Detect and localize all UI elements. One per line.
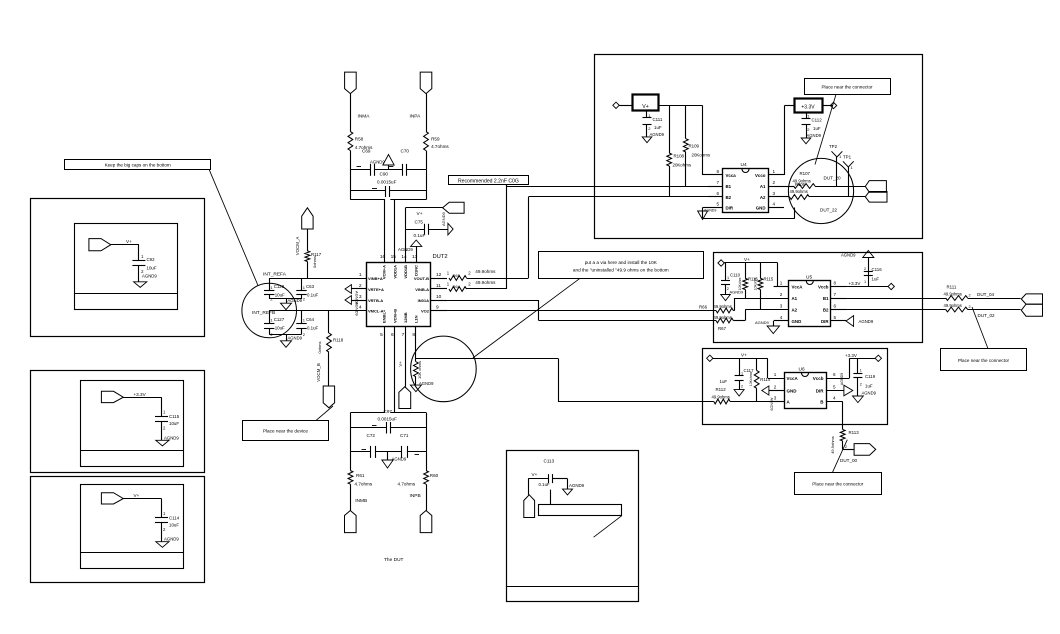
svg-text:AGND9: AGND9 [840, 373, 844, 385]
svg-text:V+: V+ [744, 257, 750, 262]
svg-text:AGND9: AGND9 [862, 391, 877, 396]
svg-text:R66: R66 [699, 304, 708, 309]
svg-text:+3.3V: +3.3V [801, 104, 815, 110]
svg-text:5: 5 [834, 315, 837, 320]
svg-text:R107: R107 [800, 171, 811, 176]
svg-text:VCM+A: VCM+A [382, 265, 387, 279]
svg-text:A2: A2 [792, 308, 798, 313]
svg-text:1: 1 [780, 281, 783, 286]
svg-text:20Kohms: 20Kohms [673, 163, 692, 168]
svg-text:1: 1 [773, 169, 776, 174]
svg-text:R61: R61 [356, 473, 365, 478]
svg-text:R111: R111 [947, 285, 957, 290]
svg-text:49.9ohms: 49.9ohms [944, 292, 962, 297]
svg-text:V+: V+ [398, 361, 403, 367]
svg-text:R113: R113 [849, 430, 860, 435]
svg-text:C63: C63 [306, 284, 315, 289]
svg-text:AGND9: AGND9 [355, 302, 360, 317]
svg-text:49.9ohms: 49.9ohms [790, 189, 808, 194]
svg-text:AGND9: AGND9 [841, 253, 856, 258]
svg-text:4.7ohms: 4.7ohms [355, 481, 373, 486]
svg-text:Place near the connector: Place near the connector [958, 358, 1010, 363]
svg-text:R118: R118 [333, 338, 344, 343]
svg-text:2: 2 [860, 383, 862, 387]
svg-text:VOCM_B: VOCM_B [316, 363, 321, 382]
svg-text:V+: V+ [741, 353, 747, 358]
svg-text:1: 1 [864, 280, 866, 284]
svg-text:DIR: DIR [726, 206, 734, 211]
svg-text:The DUT: The DUT [384, 557, 404, 563]
svg-text:C114: C114 [169, 515, 180, 520]
svg-text:INPB: INPB [410, 493, 421, 499]
svg-text:B2: B2 [823, 308, 829, 313]
svg-text:R58: R58 [355, 137, 364, 142]
svg-text:VRTB-A: VRTB-A [368, 298, 383, 303]
svg-text:IN01A: IN01A [418, 298, 429, 303]
svg-text:DUT_04: DUT_04 [977, 292, 995, 297]
svg-text:R114: R114 [760, 377, 771, 382]
svg-text:2: 2 [845, 445, 847, 449]
svg-text:49.9ohms: 49.9ohms [944, 303, 962, 308]
svg-text:AGND9: AGND9 [288, 336, 303, 341]
svg-text:5: 5 [833, 385, 836, 390]
svg-text:Vccb: Vccb [818, 285, 829, 290]
svg-text:AGND9: AGND9 [650, 132, 665, 137]
svg-text:7: 7 [834, 292, 837, 297]
svg-text:5: 5 [716, 202, 719, 207]
svg-text:+3.3V: +3.3V [134, 392, 147, 397]
svg-text:7: 7 [716, 180, 719, 185]
svg-text:AGND9: AGND9 [142, 273, 157, 278]
svg-text:2: 2 [969, 293, 971, 297]
svg-text:VCM+B: VCM+B [392, 309, 397, 323]
svg-text:VDD1A: VDD1A [392, 265, 397, 279]
svg-text:VOCM_A: VOCM_A [295, 237, 300, 256]
svg-text:VINB-A: VINB-A [415, 287, 429, 292]
svg-text:7: 7 [402, 332, 405, 338]
svg-text:10uF: 10uF [275, 293, 285, 298]
svg-text:AGND9: AGND9 [398, 247, 413, 252]
svg-text:5: 5 [380, 332, 383, 338]
svg-text:Keep the big caps on the botto: Keep the big caps on the bottom [105, 163, 171, 168]
svg-text:C69: C69 [362, 149, 371, 154]
svg-text:Place near the connector: Place near the connector [821, 84, 873, 89]
svg-text:49.9ohms: 49.9ohms [712, 394, 730, 399]
svg-text:INMB: INMB [355, 498, 367, 504]
svg-text:INMA: INMA [358, 114, 371, 120]
svg-text:C71: C71 [400, 433, 409, 438]
svg-text:1uF: 1uF [865, 383, 873, 388]
svg-text:2: 2 [773, 180, 776, 185]
svg-text:0.1uF: 0.1uF [307, 293, 319, 298]
svg-text:V+: V+ [642, 104, 649, 110]
svg-text:AGND9: AGND9 [392, 457, 407, 462]
svg-text:9: 9 [436, 304, 439, 310]
svg-text:B1: B1 [823, 296, 829, 301]
svg-text:8: 8 [412, 332, 415, 338]
svg-text:C70: C70 [401, 149, 410, 154]
svg-text:U4: U4 [741, 162, 747, 168]
svg-text:1: 1 [359, 272, 362, 278]
svg-text:10: 10 [436, 294, 442, 300]
svg-text:A2: A2 [760, 195, 766, 200]
svg-text:12MB: 12MB [403, 312, 408, 323]
svg-text:R108: R108 [674, 154, 685, 159]
svg-text:AGND9: AGND9 [859, 319, 874, 324]
svg-text:R112: R112 [716, 387, 727, 392]
svg-text:1: 1 [774, 372, 777, 377]
svg-text:GND: GND [792, 319, 802, 324]
svg-text:10Kohms: 10Kohms [749, 372, 753, 387]
svg-text:1uF: 1uF [654, 125, 662, 130]
svg-text:L1N: L1N [414, 315, 419, 323]
svg-text:Vccb: Vccb [813, 376, 824, 381]
svg-text:V+: V+ [134, 493, 140, 498]
svg-text:4: 4 [833, 396, 836, 401]
svg-text:AGND9: AGND9 [288, 298, 303, 303]
svg-text:0.0015uF: 0.0015uF [377, 179, 397, 184]
svg-text:1uF: 1uF [720, 379, 728, 384]
svg-text:0.1uF: 0.1uF [414, 233, 426, 238]
svg-text:VRTE+A: VRTE+A [368, 287, 384, 292]
svg-text:R67: R67 [718, 326, 727, 331]
svg-text:4.7ohms: 4.7ohms [431, 144, 449, 149]
svg-text:0.1uF: 0.1uF [539, 482, 551, 487]
svg-text:4: 4 [780, 315, 783, 320]
svg-text:V+: V+ [417, 211, 423, 217]
svg-text:0ohms: 0ohms [312, 256, 317, 268]
svg-text:AGND9: AGND9 [164, 537, 179, 542]
svg-text:DUT_20: DUT_20 [824, 176, 842, 181]
svg-text:6: 6 [833, 372, 836, 377]
svg-text:13: 13 [412, 254, 418, 260]
svg-text:AGND9: AGND9 [770, 398, 774, 411]
svg-text:Vcca: Vcca [726, 173, 737, 178]
svg-text:2: 2 [780, 292, 783, 297]
svg-text:A1: A1 [760, 184, 766, 189]
svg-text:TP1: TP1 [843, 155, 852, 160]
svg-text:Recommended 2.2nF C0G: Recommended 2.2nF C0G [458, 178, 519, 184]
svg-text:4: 4 [773, 202, 776, 207]
svg-text:ENBL+: ENBL+ [382, 309, 387, 323]
svg-text:U6: U6 [799, 367, 805, 373]
svg-text:R65: R65 [453, 273, 461, 278]
svg-text:6: 6 [716, 191, 719, 196]
svg-text:1: 1 [727, 276, 729, 280]
svg-text:15: 15 [391, 254, 397, 260]
svg-text:0.1uF: 0.1uF [307, 326, 319, 331]
svg-text:10uF: 10uF [147, 265, 157, 270]
svg-text:10Kohm: 10Kohm [753, 278, 757, 291]
svg-text:6: 6 [391, 332, 394, 338]
svg-text:INPA: INPA [410, 114, 422, 120]
svg-text:INT_REFA: INT_REFA [263, 272, 287, 278]
svg-text:A1: A1 [792, 296, 798, 301]
svg-text:8: 8 [834, 281, 837, 286]
svg-text:C112: C112 [812, 118, 823, 123]
svg-text:and the "uninstalled "49.9 ohm: and the "uninstalled "49.9 ohms on the b… [573, 267, 669, 272]
svg-text:C90: C90 [380, 172, 389, 177]
svg-text:R59: R59 [431, 136, 440, 141]
svg-text:DIR: DIR [821, 319, 829, 324]
svg-text:VccA: VccA [792, 285, 804, 290]
svg-text:Place near the device: Place near the device [263, 429, 308, 434]
svg-text:Vcco: Vcco [755, 173, 766, 178]
svg-text:TP2: TP2 [829, 144, 838, 149]
svg-text:AGND9: AGND9 [755, 320, 770, 325]
svg-text:1: 1 [860, 368, 862, 372]
svg-text:R115: R115 [764, 276, 774, 281]
svg-text:10Kohm: 10Kohm [738, 278, 742, 291]
svg-text:GND: GND [756, 206, 766, 211]
svg-text:10uF: 10uF [169, 522, 179, 527]
svg-text:C92: C92 [147, 257, 156, 262]
svg-text:DUT_00: DUT_00 [840, 458, 858, 463]
svg-text:AGND9: AGND9 [164, 435, 179, 440]
svg-text:VccA: VccA [787, 376, 799, 381]
svg-text:1uF: 1uF [872, 276, 880, 281]
svg-text:V+: V+ [126, 239, 132, 244]
svg-text:AGND9: AGND9 [704, 209, 716, 213]
svg-text:B1: B1 [726, 184, 732, 189]
svg-text:6: 6 [834, 304, 837, 309]
svg-text:1uF: 1uF [813, 126, 821, 131]
svg-text:3: 3 [780, 304, 783, 309]
svg-text:C72: C72 [367, 433, 376, 438]
svg-text:AGND9: AGND9 [569, 483, 585, 488]
svg-text:49.9ohms: 49.9ohms [830, 436, 835, 454]
svg-text:VO2: VO2 [421, 308, 430, 313]
svg-text:2: 2 [774, 385, 777, 390]
svg-text:C115: C115 [169, 414, 180, 419]
svg-text:16: 16 [380, 254, 386, 260]
svg-text:GND: GND [787, 389, 798, 394]
svg-text:C113: C113 [544, 459, 555, 464]
svg-text:C75: C75 [415, 219, 424, 224]
svg-text:VDD1B: VDD1B [403, 265, 408, 279]
svg-text:V+: V+ [532, 472, 538, 477]
svg-text:AGND9: AGND9 [807, 133, 822, 138]
svg-text:C127: C127 [274, 317, 285, 322]
svg-text:2: 2 [741, 385, 743, 389]
svg-text:C110: C110 [730, 272, 741, 277]
svg-text:AGND9: AGND9 [370, 160, 385, 165]
svg-text:2: 2 [864, 267, 866, 271]
svg-text:14: 14 [401, 254, 407, 260]
svg-text:+3.3V: +3.3V [845, 353, 857, 358]
svg-text:R106: R106 [795, 182, 806, 187]
svg-text:11: 11 [436, 283, 441, 289]
svg-text:49.9ohms: 49.9ohms [714, 315, 732, 320]
svg-text:8: 8 [716, 169, 719, 174]
svg-text:DUT_02: DUT_02 [978, 313, 996, 318]
svg-text:C116: C116 [872, 267, 883, 272]
svg-text:U5: U5 [806, 275, 812, 281]
svg-text:C97: C97 [384, 409, 393, 414]
svg-text:20Kohms: 20Kohms [692, 152, 711, 157]
svg-text:49.9ohms: 49.9ohms [714, 304, 732, 309]
svg-text:put a a via here and install t: put a a via here and install the 10K [585, 260, 658, 265]
svg-text:B2: B2 [726, 195, 732, 200]
svg-text:+3.3V: +3.3V [849, 281, 861, 286]
svg-text:4.7ohms: 4.7ohms [398, 481, 416, 486]
svg-text:R60: R60 [430, 473, 439, 478]
svg-text:Place near the connector: Place near the connector [812, 482, 864, 487]
svg-text:D1NC: D1NC [414, 265, 419, 276]
svg-text:2: 2 [969, 305, 971, 309]
svg-text:12: 12 [436, 272, 442, 278]
svg-text:10uF: 10uF [169, 421, 179, 426]
svg-text:DUT_22: DUT_22 [820, 207, 838, 212]
svg-text:10K ohms: 10K ohms [417, 361, 422, 379]
svg-text:49.9ohms: 49.9ohms [475, 269, 496, 274]
svg-text:R109: R109 [689, 144, 700, 149]
svg-text:AGND9: AGND9 [419, 381, 434, 386]
svg-text:C119: C119 [865, 374, 876, 379]
svg-text:0ohms: 0ohms [317, 341, 322, 353]
svg-text:DUT2: DUT2 [433, 254, 448, 260]
svg-text:R64: R64 [453, 284, 461, 289]
svg-text:C111: C111 [653, 117, 663, 122]
svg-text:AGND9: AGND9 [441, 211, 446, 226]
svg-text:49.9ohms: 49.9ohms [475, 280, 496, 285]
svg-text:C64: C64 [306, 317, 315, 322]
svg-text:C128: C128 [274, 284, 285, 289]
svg-text:3: 3 [773, 191, 776, 196]
svg-text:DIR: DIR [816, 389, 825, 394]
svg-text:10uF: 10uF [275, 326, 285, 331]
svg-text:0.0015uF: 0.0015uF [378, 417, 398, 422]
